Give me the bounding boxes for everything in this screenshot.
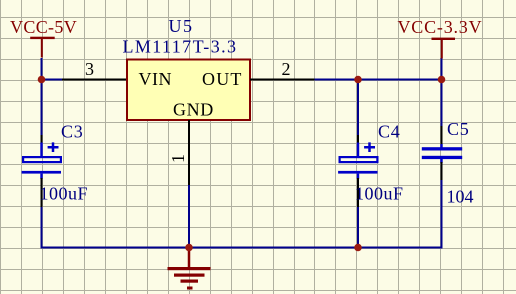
- pin 3 (VIN): [62, 79, 126, 81]
- svg-text:VCC-5V: VCC-5V: [10, 17, 77, 37]
- regulator U5 body: [127, 60, 250, 121]
- junction at VCC-3.3V node: [438, 76, 446, 84]
- svg-text:2: 2: [282, 59, 291, 79]
- svg-text:LM1117T-3.3: LM1117T-3.3: [123, 37, 238, 57]
- capacitor C4: [338, 135, 377, 207]
- svg-text:VCC-3.3V: VCC-3.3V: [398, 17, 483, 37]
- junction at VCC-5V node: [38, 76, 46, 84]
- wire top-left vertical: [41, 58, 43, 80]
- capacitor C3: [22, 135, 61, 207]
- junction at GND rail: [185, 244, 193, 252]
- wire C3 to bottom rail: [41, 206, 43, 249]
- power VCC-3.3V: [398, 17, 483, 59]
- pin 2 (OUT): [250, 79, 315, 81]
- svg-text:100uF: 100uF: [40, 184, 89, 204]
- pin 1 (GND): [188, 120, 190, 185]
- wire C5 branch: [441, 80, 443, 128]
- wire bottom rail: [41, 247, 443, 249]
- svg-text:104: 104: [447, 187, 474, 207]
- wire top-right horizontal: [314, 79, 443, 81]
- wire VCC-3.3V vertical: [441, 58, 443, 80]
- wire C5 to bottom rail: [441, 180, 443, 249]
- wire C4 branch: [357, 80, 359, 137]
- svg-text:U5: U5: [169, 16, 194, 36]
- svg-text:OUT: OUT: [202, 69, 243, 89]
- svg-text:C3: C3: [61, 122, 84, 142]
- wire C3 branch: [41, 80, 43, 137]
- svg-text:GND: GND: [173, 100, 214, 120]
- wire top-left horizontal: [42, 79, 65, 81]
- svg-text:VIN: VIN: [139, 69, 173, 89]
- svg-text:3: 3: [85, 59, 94, 79]
- wire GND pin to bottom rail: [188, 185, 190, 248]
- capacitor C5: [422, 126, 462, 180]
- svg-text:1: 1: [168, 154, 188, 163]
- ground: [168, 248, 211, 290]
- svg-text:C4: C4: [378, 122, 401, 142]
- junction at C4 bottom: [354, 244, 362, 252]
- svg-text:C5: C5: [447, 119, 470, 139]
- power VCC-5V: [10, 17, 77, 58]
- svg-text:100uF: 100uF: [355, 184, 404, 204]
- junction at OUT/C4 node: [354, 76, 362, 84]
- wire C4 to bottom rail: [357, 206, 359, 248]
